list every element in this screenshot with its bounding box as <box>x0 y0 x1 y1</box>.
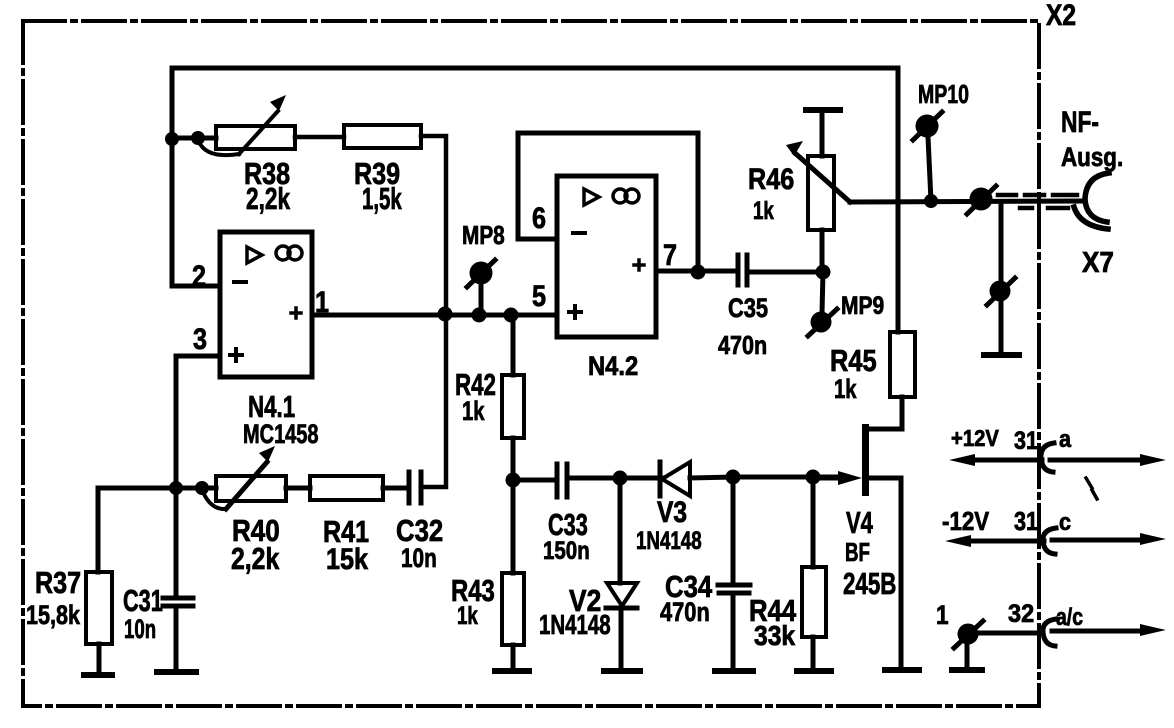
node: R42 junction <box>504 308 519 323</box>
wire: right vertical top rail to R45 <box>896 68 901 332</box>
node: pin3 junction <box>169 481 183 495</box>
svg-text:1N4148: 1N4148 <box>539 610 611 641</box>
svg-text:2,2k: 2,2k <box>231 541 280 575</box>
svg-text:NF-: NF- <box>1061 105 1099 139</box>
resistor R40 2,2k (variable) <box>216 476 286 501</box>
node: V2 junction <box>613 471 628 486</box>
svg-text:7: 7 <box>663 238 677 272</box>
node: MP8 junction <box>472 308 487 323</box>
svg-text:3: 3 <box>193 322 207 356</box>
svg-text:R37: R37 <box>35 564 81 599</box>
svg-text:1k: 1k <box>462 396 485 427</box>
op-amp N4.2 <box>557 176 656 337</box>
svg-text:1: 1 <box>936 600 949 630</box>
svg-text:33k: 33k <box>754 620 795 652</box>
svg-text:X7: X7 <box>1082 246 1114 279</box>
svg-text:MC1458: MC1458 <box>243 419 319 450</box>
svg-text:2: 2 <box>192 259 206 293</box>
node: C34 junction <box>726 470 741 485</box>
node: pin7 feedback junction <box>691 265 706 280</box>
transistor V4 BF245B (JFET) <box>862 424 869 496</box>
connector X7 <box>1085 173 1109 222</box>
svg-text:N4.2: N4.2 <box>588 352 638 382</box>
svg-text:2,2k: 2,2k <box>246 180 291 215</box>
wire: R41 to C32 <box>383 486 409 491</box>
svg-text:245B: 245B <box>843 566 896 600</box>
test point on output line <box>970 188 993 211</box>
wire: R46 wiper to X7 output line <box>850 201 1083 202</box>
node: R42/R43/C33 junction <box>506 473 521 488</box>
svg-text:V3: V3 <box>657 495 687 529</box>
svg-text:15,8k: 15,8k <box>26 601 80 631</box>
wire: junction to R38 <box>172 136 216 141</box>
diode V2 1N4148 <box>618 478 623 583</box>
svg-text:150n: 150n <box>543 536 590 564</box>
wire: top rail <box>172 66 898 71</box>
svg-text:32: 32 <box>1008 600 1034 628</box>
svg-text:15k: 15k <box>326 542 369 576</box>
wire: N4.1 output pin1 to N4.2 pin5 <box>312 313 557 318</box>
shield dashes on output line <box>998 193 1016 198</box>
node: junction R38 left <box>165 132 179 146</box>
svg-text:1N4148: 1N4148 <box>636 526 702 554</box>
test point MP9 <box>822 272 823 313</box>
svg-text:5: 5 <box>532 279 546 313</box>
ground terminator <box>984 352 1019 358</box>
capacitor C32 10n <box>407 472 412 503</box>
wire: R45 to V4 drain <box>867 397 902 429</box>
wire: N4.1 pin3 <box>176 356 220 488</box>
wire: C34 to R44/gate <box>733 475 840 480</box>
svg-text:MP8: MP8 <box>462 221 505 250</box>
node: output junction at C32 riser <box>438 307 453 322</box>
svg-text:-12V: -12V <box>942 507 989 536</box>
node: R40 wiper tap <box>195 481 209 495</box>
resistor R39 1,5k <box>344 125 421 148</box>
node: R46/MP9 junction <box>816 265 831 280</box>
wire: left bus R37/C31/R40 <box>98 488 216 572</box>
capacitor C35 470n <box>736 255 741 285</box>
wire: ground stub on output line <box>999 203 1004 282</box>
svg-text:470n: 470n <box>718 331 767 360</box>
svg-text:1,5k: 1,5k <box>362 181 402 216</box>
wire: R39 down to C32 node <box>421 136 446 487</box>
capacitor C31 10n <box>174 488 179 598</box>
svg-text:V4: V4 <box>846 505 873 540</box>
test point on ground stub <box>990 281 1011 302</box>
svg-text:+12V: +12V <box>951 425 999 452</box>
svg-text:Ausg.: Ausg. <box>1061 143 1123 172</box>
svg-text:1k: 1k <box>753 196 774 224</box>
wire: R40 to R41 <box>286 486 310 491</box>
capacitor C33 150n <box>555 464 560 497</box>
resistor R42 1k <box>511 315 516 375</box>
svg-text:c: c <box>1059 508 1071 535</box>
svg-text:BF: BF <box>845 537 870 567</box>
svg-text:C35: C35 <box>728 294 768 324</box>
wire: C35 to R46 node <box>747 270 823 275</box>
resistor R43 1k <box>511 480 516 573</box>
op-amp N4.1 MC1458 <box>220 232 312 377</box>
wire: R38 to R39 <box>295 135 344 140</box>
svg-text:31: 31 <box>1014 507 1038 536</box>
svg-text:MP10: MP10 <box>918 79 969 108</box>
svg-text:470n: 470n <box>660 598 710 628</box>
resistor R37 15,8k <box>86 572 112 644</box>
node: R38 wiper tap <box>191 131 205 145</box>
capacitor C34 470n <box>731 477 736 585</box>
svg-text:10n: 10n <box>124 614 156 644</box>
resistor R44 33k <box>811 477 816 567</box>
test point MP8 <box>479 286 484 315</box>
svg-text:1k: 1k <box>457 601 478 629</box>
wire: N4.2 feedback loop <box>518 133 698 272</box>
scan marks <box>1086 478 1092 488</box>
wire: N4.2 pin6 <box>518 237 557 242</box>
diode V3 1N4148 <box>658 462 663 496</box>
svg-text:MP9: MP9 <box>841 291 884 319</box>
wire: junction to C33 <box>513 478 557 483</box>
resistor R38 2,2k (variable) <box>216 126 295 149</box>
svg-text:a: a <box>1059 425 1071 452</box>
svg-text:10n: 10n <box>401 543 437 573</box>
wire: N4.2 pin7 output <box>656 269 737 274</box>
resistor R46 1k (variable) <box>806 107 840 113</box>
svg-text:6: 6 <box>532 201 546 235</box>
svg-text:a/c: a/c <box>1056 603 1083 630</box>
svg-text:X2: X2 <box>1046 0 1076 32</box>
svg-text:1k: 1k <box>834 374 857 405</box>
node: R44 junction <box>806 470 821 485</box>
node: MP10 junction <box>924 194 938 208</box>
test point MP10 <box>928 137 931 201</box>
wire: C33 to V3 <box>567 476 661 481</box>
wire: N4.1 pin2 feedback left vertical <box>172 68 220 286</box>
svg-text:31: 31 <box>1014 426 1038 454</box>
resistor R41 15k <box>310 476 383 500</box>
resistor R45 1k <box>890 332 915 397</box>
svg-text:R46: R46 <box>748 162 794 196</box>
